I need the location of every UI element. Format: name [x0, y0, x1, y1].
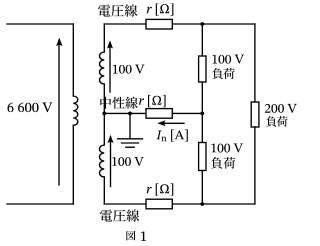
ground bar 1	[118, 138, 143, 140]
label r [ohm] bottom line	[147, 183, 174, 195]
wire primary bottom lead	[7, 203, 73, 205]
label 中性線 neutral line	[100, 97, 111, 109]
junction dot secondary bus / neutral	[102, 112, 106, 116]
wire 200V load branch bottom	[254, 127, 256, 204]
label 負荷 200V load	[266, 116, 276, 127]
arrow head upper 100V	[107, 40, 113, 48]
label 100 V upper load	[212, 55, 244, 64]
label 負荷 lower 100V load	[211, 157, 222, 169]
wire upper load branch bottom	[201, 82, 203, 113]
arrow shaft In neutral current	[164, 122, 184, 124]
wire 200V load branch top	[254, 24, 256, 102]
arrow shaft 6600V primary voltage	[58, 44, 60, 185]
load 100V lower box	[199, 143, 206, 171]
arrow head 6600V	[56, 38, 62, 47]
label 200 V load	[265, 104, 297, 113]
label r [ohm] neutral line	[139, 95, 166, 107]
wire primary top lead	[7, 23, 73, 25]
arrow shaft upper 100V winding	[109, 47, 111, 92]
label 100 V lower winding	[112, 157, 144, 166]
wire secondary bus middle segment	[103, 84, 105, 145]
label figure number 1	[141, 231, 146, 240]
ground bar 2	[122, 142, 139, 144]
wire upper load branch top	[201, 24, 203, 56]
junction dot top line / load branch	[200, 22, 204, 26]
transformer secondary winding lower (100 V)	[100, 145, 105, 177]
junction dot neutral / load branch	[200, 112, 204, 116]
ground stem	[129, 113, 131, 138]
resistor r bottom voltage line	[146, 199, 172, 209]
transformer primary winding (6.6 kV side)	[73, 96, 78, 125]
load 100V upper box	[199, 56, 206, 82]
label 100 V lower load	[211, 143, 243, 152]
wire lower load branch bottom	[201, 171, 203, 205]
wire top voltage line right	[172, 23, 255, 25]
wire primary right vertical lower	[72, 125, 74, 204]
wire bottom voltage line right	[172, 203, 255, 205]
label 電圧線 top voltage line	[98, 4, 110, 16]
wire secondary bus top segment	[103, 24, 105, 52]
label 電圧線 bottom voltage line	[100, 209, 112, 221]
label In [A] neutral current	[156, 129, 188, 141]
wire neutral line right	[172, 112, 202, 114]
wire secondary bus bottom segment	[103, 177, 105, 204]
junction dot ground / neutral	[128, 112, 132, 116]
wire top voltage line left	[104, 23, 146, 25]
arrow head lower 100V	[108, 135, 114, 143]
arrow shaft lower 100V winding	[110, 142, 112, 187]
transformer secondary winding upper (100 V)	[100, 52, 105, 84]
arrow head In	[157, 120, 165, 126]
label r [ohm] top line	[147, 3, 174, 15]
ground bar 3	[126, 146, 134, 148]
wire primary right vertical upper	[72, 24, 74, 96]
label 図 figure caption	[126, 231, 135, 241]
wire lower load branch top	[201, 113, 203, 142]
label 100 V upper winding	[113, 65, 145, 74]
junction dot bottom line / load branch	[200, 202, 204, 206]
resistor r top voltage line	[146, 19, 172, 29]
wire bottom voltage line left	[104, 203, 146, 205]
label 6 600 V primary voltage	[7, 102, 52, 112]
load 200V box	[251, 102, 259, 127]
resistor r neutral line	[146, 109, 172, 119]
label 負荷 upper 100V load	[212, 68, 223, 79]
wire neutral line left	[104, 112, 146, 114]
